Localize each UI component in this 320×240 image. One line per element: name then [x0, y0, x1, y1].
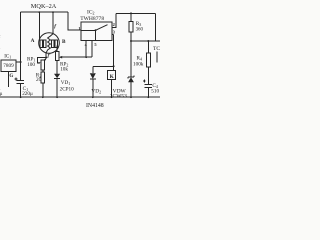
- svg-text:R3: R3: [136, 21, 141, 27]
- wire top rail right: [116, 12, 155, 14]
- wire sensor A electrode drop: [38, 12, 40, 40]
- node pin3/relay junction: [113, 65, 115, 67]
- zener VDW 2CW53: [128, 41, 134, 97]
- relay K: [108, 66, 116, 97]
- wire pin2 riser: [112, 13, 116, 27]
- svg-text:100k: 100k: [133, 62, 144, 68]
- svg-text:IC1: IC1: [4, 55, 11, 60]
- node bottom rail junctions: [20, 96, 150, 98]
- op IC2 TWH8778 box: [81, 22, 112, 41]
- svg-text:10k: 10k: [60, 67, 68, 73]
- svg-text:0μ: 0μ: [0, 92, 3, 97]
- svg-text:2CP10: 2CP10: [60, 86, 75, 92]
- wire pin3 drop: [112, 34, 114, 66]
- wire TC stub: [156, 52, 158, 63]
- svg-text:f′: f′: [48, 53, 52, 59]
- node f' junction: [45, 57, 47, 59]
- potentiometer RP1: [38, 58, 47, 71]
- wire bottom rail: [0, 96, 160, 98]
- wire f' pin: [45, 53, 47, 58]
- regulator IC1 7809: [1, 60, 16, 71]
- svg-text:7809: 7809: [3, 63, 14, 69]
- svg-text:G: G: [9, 74, 13, 79]
- node rail junction A: [38, 11, 40, 13]
- svg-text:MQK–2A: MQK–2A: [31, 3, 57, 10]
- svg-text:K: K: [110, 74, 114, 80]
- wire G pin: [8, 71, 10, 87]
- svg-text:2CW53: 2CW53: [110, 93, 127, 99]
- svg-text:IN4148: IN4148: [86, 103, 104, 109]
- resistor R4: [146, 41, 150, 84]
- capacitor C4: [143, 80, 152, 98]
- capacitor C1 220u: [15, 78, 25, 98]
- svg-text:IC2: IC2: [87, 10, 95, 16]
- svg-text:360: 360: [136, 28, 144, 33]
- node rail junction f: [52, 11, 54, 13]
- diode VD2 IN4148: [90, 66, 96, 97]
- wire B electrode drop: [56, 46, 58, 52]
- svg-text:TWH8778: TWH8778: [80, 16, 104, 22]
- wire pin1 feed: [68, 12, 81, 30]
- svg-text:510: 510: [151, 88, 159, 94]
- svg-text:220μ: 220μ: [22, 91, 33, 97]
- diode VD1 2CP10: [54, 74, 60, 97]
- wire top rail left: [21, 11, 68, 13]
- svg-text:VD2: VD2: [91, 88, 101, 94]
- switch inside IC2: [81, 29, 96, 31]
- potentiometer RP2: [55, 52, 59, 74]
- svg-text:1: 1: [78, 26, 80, 31]
- svg-text:A: A: [31, 38, 35, 44]
- svg-text:B: B: [62, 39, 66, 45]
- svg-text:VD1: VD1: [61, 80, 71, 86]
- wire pin4 drop: [85, 41, 87, 58]
- wire 7809 output stub: [16, 61, 21, 63]
- svg-text:100: 100: [27, 62, 35, 68]
- wire right edge drop: [155, 13, 157, 41]
- wire RP2 wiper line: [60, 56, 92, 58]
- wire pin5 drop: [91, 41, 93, 58]
- wire node line y41: [131, 40, 160, 42]
- wire 7809 output riser: [20, 12, 22, 80]
- wire VD2 bus: [93, 65, 114, 67]
- resistor R3: [129, 13, 133, 41]
- gas sensor MQK-2A: [39, 33, 60, 58]
- wire sensor heater f drop: [52, 12, 54, 34]
- svg-text:2: 2: [113, 22, 115, 27]
- svg-text:TC: TC: [153, 46, 160, 52]
- resistor R2: [41, 70, 45, 97]
- svg-text:20: 20: [36, 77, 42, 83]
